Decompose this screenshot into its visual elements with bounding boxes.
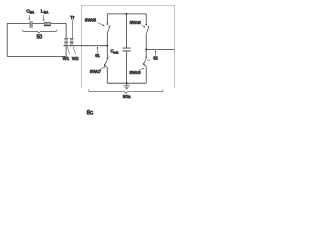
svg-text:W2: W2	[72, 56, 79, 61]
node bottom-cap junction dot	[126, 82, 128, 84]
svg-text:50: 50	[37, 35, 43, 41]
winding W2	[69, 38, 74, 46]
label Chd	[110, 49, 118, 55]
wire top rail	[107, 13, 146, 15]
svg-text:8c: 8c	[87, 110, 94, 117]
wire bottom-left loop bottom	[7, 55, 66, 57]
label LBA	[41, 9, 49, 15]
leader arrow CBA	[29, 15, 30, 20]
ground	[124, 83, 130, 88]
node 62 label + arrow	[153, 51, 158, 61]
label W1 + leader	[63, 47, 70, 61]
svg-text:62: 62	[153, 55, 158, 60]
svg-text:90a: 90a	[123, 94, 131, 99]
svg-text:BA: BA	[30, 11, 35, 15]
label SWc7 + leader	[90, 67, 105, 74]
capacitor CBA	[30, 21, 32, 28]
label CBA	[26, 9, 34, 15]
svg-text:hd1: hd1	[114, 51, 119, 55]
svg-text:BA: BA	[44, 11, 49, 15]
node 62 junction dot	[145, 48, 147, 50]
Tr leader / W2 top lead	[71, 20, 74, 38]
underbrace 50	[22, 30, 57, 34]
capacitor Chd plates	[122, 48, 130, 51]
wire bottom rail	[107, 82, 146, 84]
svg-text:W1: W1	[63, 56, 70, 61]
capacitor Chd column bottom	[126, 51, 128, 83]
svg-text:SWc7: SWc7	[90, 69, 102, 74]
switch SWc8	[143, 49, 150, 83]
wire top-left loop top	[7, 22, 66, 24]
underbrace 90a	[89, 90, 163, 94]
svg-text:Tr: Tr	[70, 15, 75, 20]
switch SWc5	[106, 14, 110, 46]
winding W1	[64, 23, 69, 56]
wire W2 to node 61	[75, 45, 108, 47]
node top-cap junction dot	[126, 13, 128, 15]
svg-text:61: 61	[95, 53, 100, 58]
inductor LBA	[44, 22, 51, 26]
label SWc6 + leader	[130, 20, 145, 28]
switch SWc7	[104, 46, 109, 83]
node 62 wire	[146, 48, 174, 50]
capacitor Chd column top	[126, 14, 128, 48]
box 90a	[82, 6, 175, 89]
wire left vertical	[6, 23, 8, 56]
leader arrow LBA	[43, 15, 44, 21]
node 61 junction dot	[106, 45, 108, 47]
label SWc5 + leader	[85, 17, 105, 25]
svg-text:SWc5: SWc5	[85, 17, 97, 22]
svg-text:SWc8: SWc8	[129, 70, 141, 75]
label SWc8 + leader	[129, 68, 143, 75]
label W2 + leader	[72, 47, 79, 61]
switch SWc6	[145, 14, 149, 50]
svg-text:SWc6: SWc6	[130, 20, 142, 25]
node 61 label + arrow	[95, 47, 100, 58]
